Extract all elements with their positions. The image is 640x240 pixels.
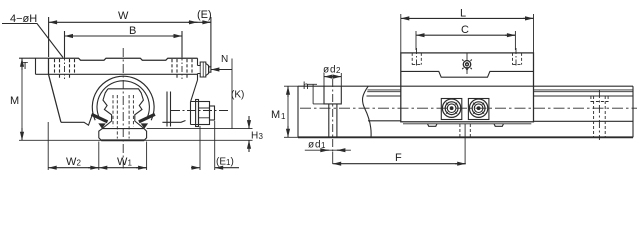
label L [460, 8, 466, 20]
dim E arrow [202, 21, 211, 23]
grease port [463, 60, 472, 69]
ground line extensions [19, 139, 253, 141]
clamp arm top/bottom [191, 102, 199, 125]
horizontal centerline [300, 107, 637, 109]
center line vertical [122, 48, 124, 169]
svg-text:C: C [461, 24, 469, 36]
hidden hole right end [591, 96, 608, 102]
hole lines [329, 104, 337, 137]
rail top line [298, 85, 633, 87]
dim N line [211, 69, 232, 71]
svg-text:(K): (K) [231, 90, 244, 101]
block left slant side [49, 74, 62, 122]
nipple tip [209, 67, 211, 72]
label od1 [308, 140, 326, 151]
bolt centerline [171, 110, 228, 112]
rail left face [297, 86, 299, 137]
svg-text:ø: ø [323, 65, 329, 76]
block left edge [48, 58, 50, 74]
label H3 [251, 131, 264, 142]
label W [118, 10, 129, 22]
hidden cap hole right [513, 53, 522, 65]
svg-text:M: M [271, 109, 280, 121]
ground line [101, 139, 144, 141]
label (K) [231, 90, 244, 101]
svg-text:M: M [10, 95, 19, 107]
hole centerline [332, 79, 334, 152]
dim W2/W1 ext lines [48, 122, 146, 170]
left foot bottom [61, 113, 93, 125]
seal tip right [141, 123, 149, 128]
dim od2 [324, 73, 341, 86]
block top outline [49, 58, 198, 60]
rail right end [632, 86, 634, 137]
svg-text:W: W [66, 156, 77, 168]
block bottom seal strip [403, 123, 531, 125]
label 4-oH [10, 13, 37, 25]
break curve [362, 86, 371, 137]
dim W line [49, 21, 211, 23]
svg-text:3: 3 [259, 132, 264, 141]
rail bottom line [298, 136, 633, 138]
rail base top line [102, 128, 144, 130]
svg-text:1: 1 [321, 141, 326, 150]
dome outer arc [92, 76, 154, 120]
svg-text:H: H [251, 131, 258, 142]
dim h [307, 84, 325, 104]
counterbore box [324, 86, 341, 104]
right flange hole inner dashed [177, 59, 187, 79]
svg-text:(E): (E) [197, 9, 212, 21]
bolt head [199, 102, 210, 125]
seal tip left [98, 123, 106, 128]
svg-text:N: N [221, 54, 228, 65]
label W2 [66, 156, 82, 168]
seal wedge right [139, 114, 155, 122]
dim C line [416, 34, 515, 36]
dim od1 [305, 149, 351, 151]
T dim line [35, 58, 37, 74]
svg-text:(E: (E [216, 157, 226, 168]
right foot bottom [162, 121, 185, 123]
svg-text:): ) [231, 157, 234, 168]
flange hole centerlines [65, 55, 183, 80]
label (E) [197, 9, 212, 21]
label B [129, 25, 136, 37]
hidden cap hole left [412, 53, 421, 65]
svg-text:d: d [330, 65, 336, 76]
label M [10, 95, 19, 107]
dim B ext lines [64, 31, 66, 57]
label F [395, 152, 402, 164]
dim W ext left [48, 17, 50, 57]
svg-text:F: F [395, 152, 402, 164]
roller housing right [468, 99, 489, 120]
M top tick [19, 57, 29, 59]
svg-text:h: h [303, 81, 309, 92]
label (E1) [216, 157, 234, 168]
svg-text:2: 2 [77, 159, 82, 168]
dim L ext [401, 14, 534, 53]
svg-text:2: 2 [336, 66, 341, 75]
rail head profile [108, 89, 144, 129]
svg-text:1: 1 [281, 112, 286, 121]
block top step line [401, 71, 534, 77]
bolt tip [210, 106, 215, 120]
dim E1 ext lines [200, 121, 215, 170]
label od2 [323, 65, 341, 76]
left flange hole inner dashed [60, 59, 70, 79]
T top tick [29, 57, 49, 59]
rail shaft lines [367, 90, 633, 92]
roller housing left [441, 99, 462, 120]
dim E ext right [210, 17, 212, 67]
right block side slant [191, 80, 198, 125]
rail support top line [367, 95, 634, 97]
right flange hole outer dashed [172, 59, 192, 74]
dim Hs arrows [248, 116, 250, 129]
dim W2 line [48, 167, 99, 169]
side clamp plate [167, 92, 171, 127]
M arrows [21, 58, 23, 70]
roller right [469, 99, 487, 117]
dim B line [65, 35, 183, 37]
svg-text:L: L [460, 8, 466, 20]
svg-text:1: 1 [128, 159, 133, 168]
svg-text:W: W [117, 156, 128, 168]
dim E1 arrows [191, 167, 200, 169]
dim M1 [284, 86, 298, 137]
grease nipple [198, 62, 209, 77]
block bottom tabs [428, 124, 504, 127]
svg-text:ø: ø [308, 140, 314, 151]
block right edge upper [197, 58, 199, 80]
dim F [333, 124, 465, 164]
dim L line [401, 17, 534, 19]
roller left [442, 99, 460, 117]
T bottom tick [36, 73, 49, 75]
seal wedge left [92, 114, 108, 122]
label C [461, 24, 469, 36]
dim C ext [416, 31, 515, 50]
label N [221, 54, 228, 65]
rail base shoulder lines [368, 120, 633, 123]
svg-text:W: W [118, 10, 129, 22]
rail base [99, 129, 147, 141]
leader for 4-oH [2, 24, 63, 58]
label M1 [271, 109, 286, 121]
left flange hole outer dashed [55, 59, 75, 74]
hidden hole under block [460, 124, 470, 137]
label W1 [117, 156, 133, 168]
svg-text:B: B [129, 25, 136, 37]
dim K vertical [231, 59, 233, 129]
rail base top line to Hs [147, 128, 253, 130]
block outline [401, 53, 534, 122]
dome inner arc [97, 81, 149, 118]
flange underside [49, 73, 198, 75]
svg-text:d: d [315, 140, 321, 151]
rail hidden bolt dashed [113, 95, 133, 127]
dim W1 line [99, 167, 147, 169]
svg-text:T: T [22, 61, 28, 72]
M dim line [21, 58, 23, 140]
label T [22, 61, 28, 72]
label h [303, 81, 309, 92]
